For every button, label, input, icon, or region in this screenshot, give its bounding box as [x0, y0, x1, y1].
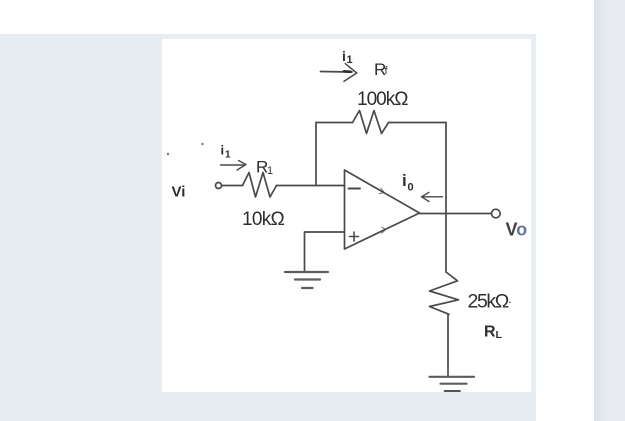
- arrow i0 current (pointing left): [422, 192, 443, 201]
- wire R1 to op-amp inverting input: [277, 185, 345, 187]
- svg-text:f: f: [385, 65, 389, 77]
- stray dot upper: [201, 143, 203, 145]
- wire op-amp plus input to ground: [305, 232, 345, 272]
- wire feedback left vertical: [315, 123, 317, 186]
- arrow i1 current (left, near R1): [221, 161, 247, 171]
- wire feedback top left: [316, 122, 353, 124]
- label i1 (top): [342, 48, 353, 66]
- label RL: [484, 324, 503, 342]
- svg-text:Vo: Vo: [506, 220, 528, 240]
- svg-text:Vi: Vi: [172, 184, 186, 201]
- resistor R1: [243, 173, 277, 198]
- svg-text:25kΩ·: 25kΩ·: [468, 291, 511, 313]
- resistor RL: [430, 272, 459, 314]
- svg-text:1: 1: [267, 165, 273, 177]
- svg-text:1: 1: [347, 54, 353, 66]
- svg-text:0: 0: [408, 182, 414, 194]
- svg-text:L: L: [496, 329, 503, 341]
- svg-text:10kΩ: 10kΩ: [242, 209, 285, 230]
- tick on op-amp top edge: [379, 188, 384, 193]
- label R1: [256, 158, 273, 178]
- wire feedback right vertical: [445, 123, 447, 214]
- label i1 (left): [221, 143, 232, 161]
- wire op-amp output: [420, 213, 492, 215]
- resistor Rf: [353, 111, 389, 134]
- node Vo output terminal: [492, 209, 501, 218]
- svg-text:R: R: [484, 324, 496, 341]
- arrow i1 current (top, near Rf): [321, 64, 357, 82]
- svg-text:i: i: [342, 48, 346, 64]
- svg-text:i: i: [221, 143, 225, 158]
- tick on op-amp bottom edge: [382, 227, 386, 233]
- ground (below RL): [430, 377, 475, 391]
- svg-text:1: 1: [225, 150, 231, 161]
- node Vi input terminal: [216, 183, 222, 189]
- label i0: [402, 171, 414, 194]
- wire RL to ground: [447, 314, 449, 376]
- op-amp U1: [345, 170, 420, 249]
- ground (below op-amp): [285, 272, 328, 288]
- wire input terminal to R1: [222, 185, 243, 187]
- stray dot left: [167, 153, 169, 155]
- label Rf: [374, 60, 389, 79]
- svg-text:i: i: [402, 171, 407, 190]
- op-amp non-inverting pin plus: [350, 236, 359, 238]
- wire output node down to RL: [445, 214, 447, 273]
- op-amp inverting pin minus: [349, 188, 361, 190]
- wire feedback top right: [389, 122, 447, 124]
- svg-text:100kΩ: 100kΩ: [357, 89, 408, 110]
